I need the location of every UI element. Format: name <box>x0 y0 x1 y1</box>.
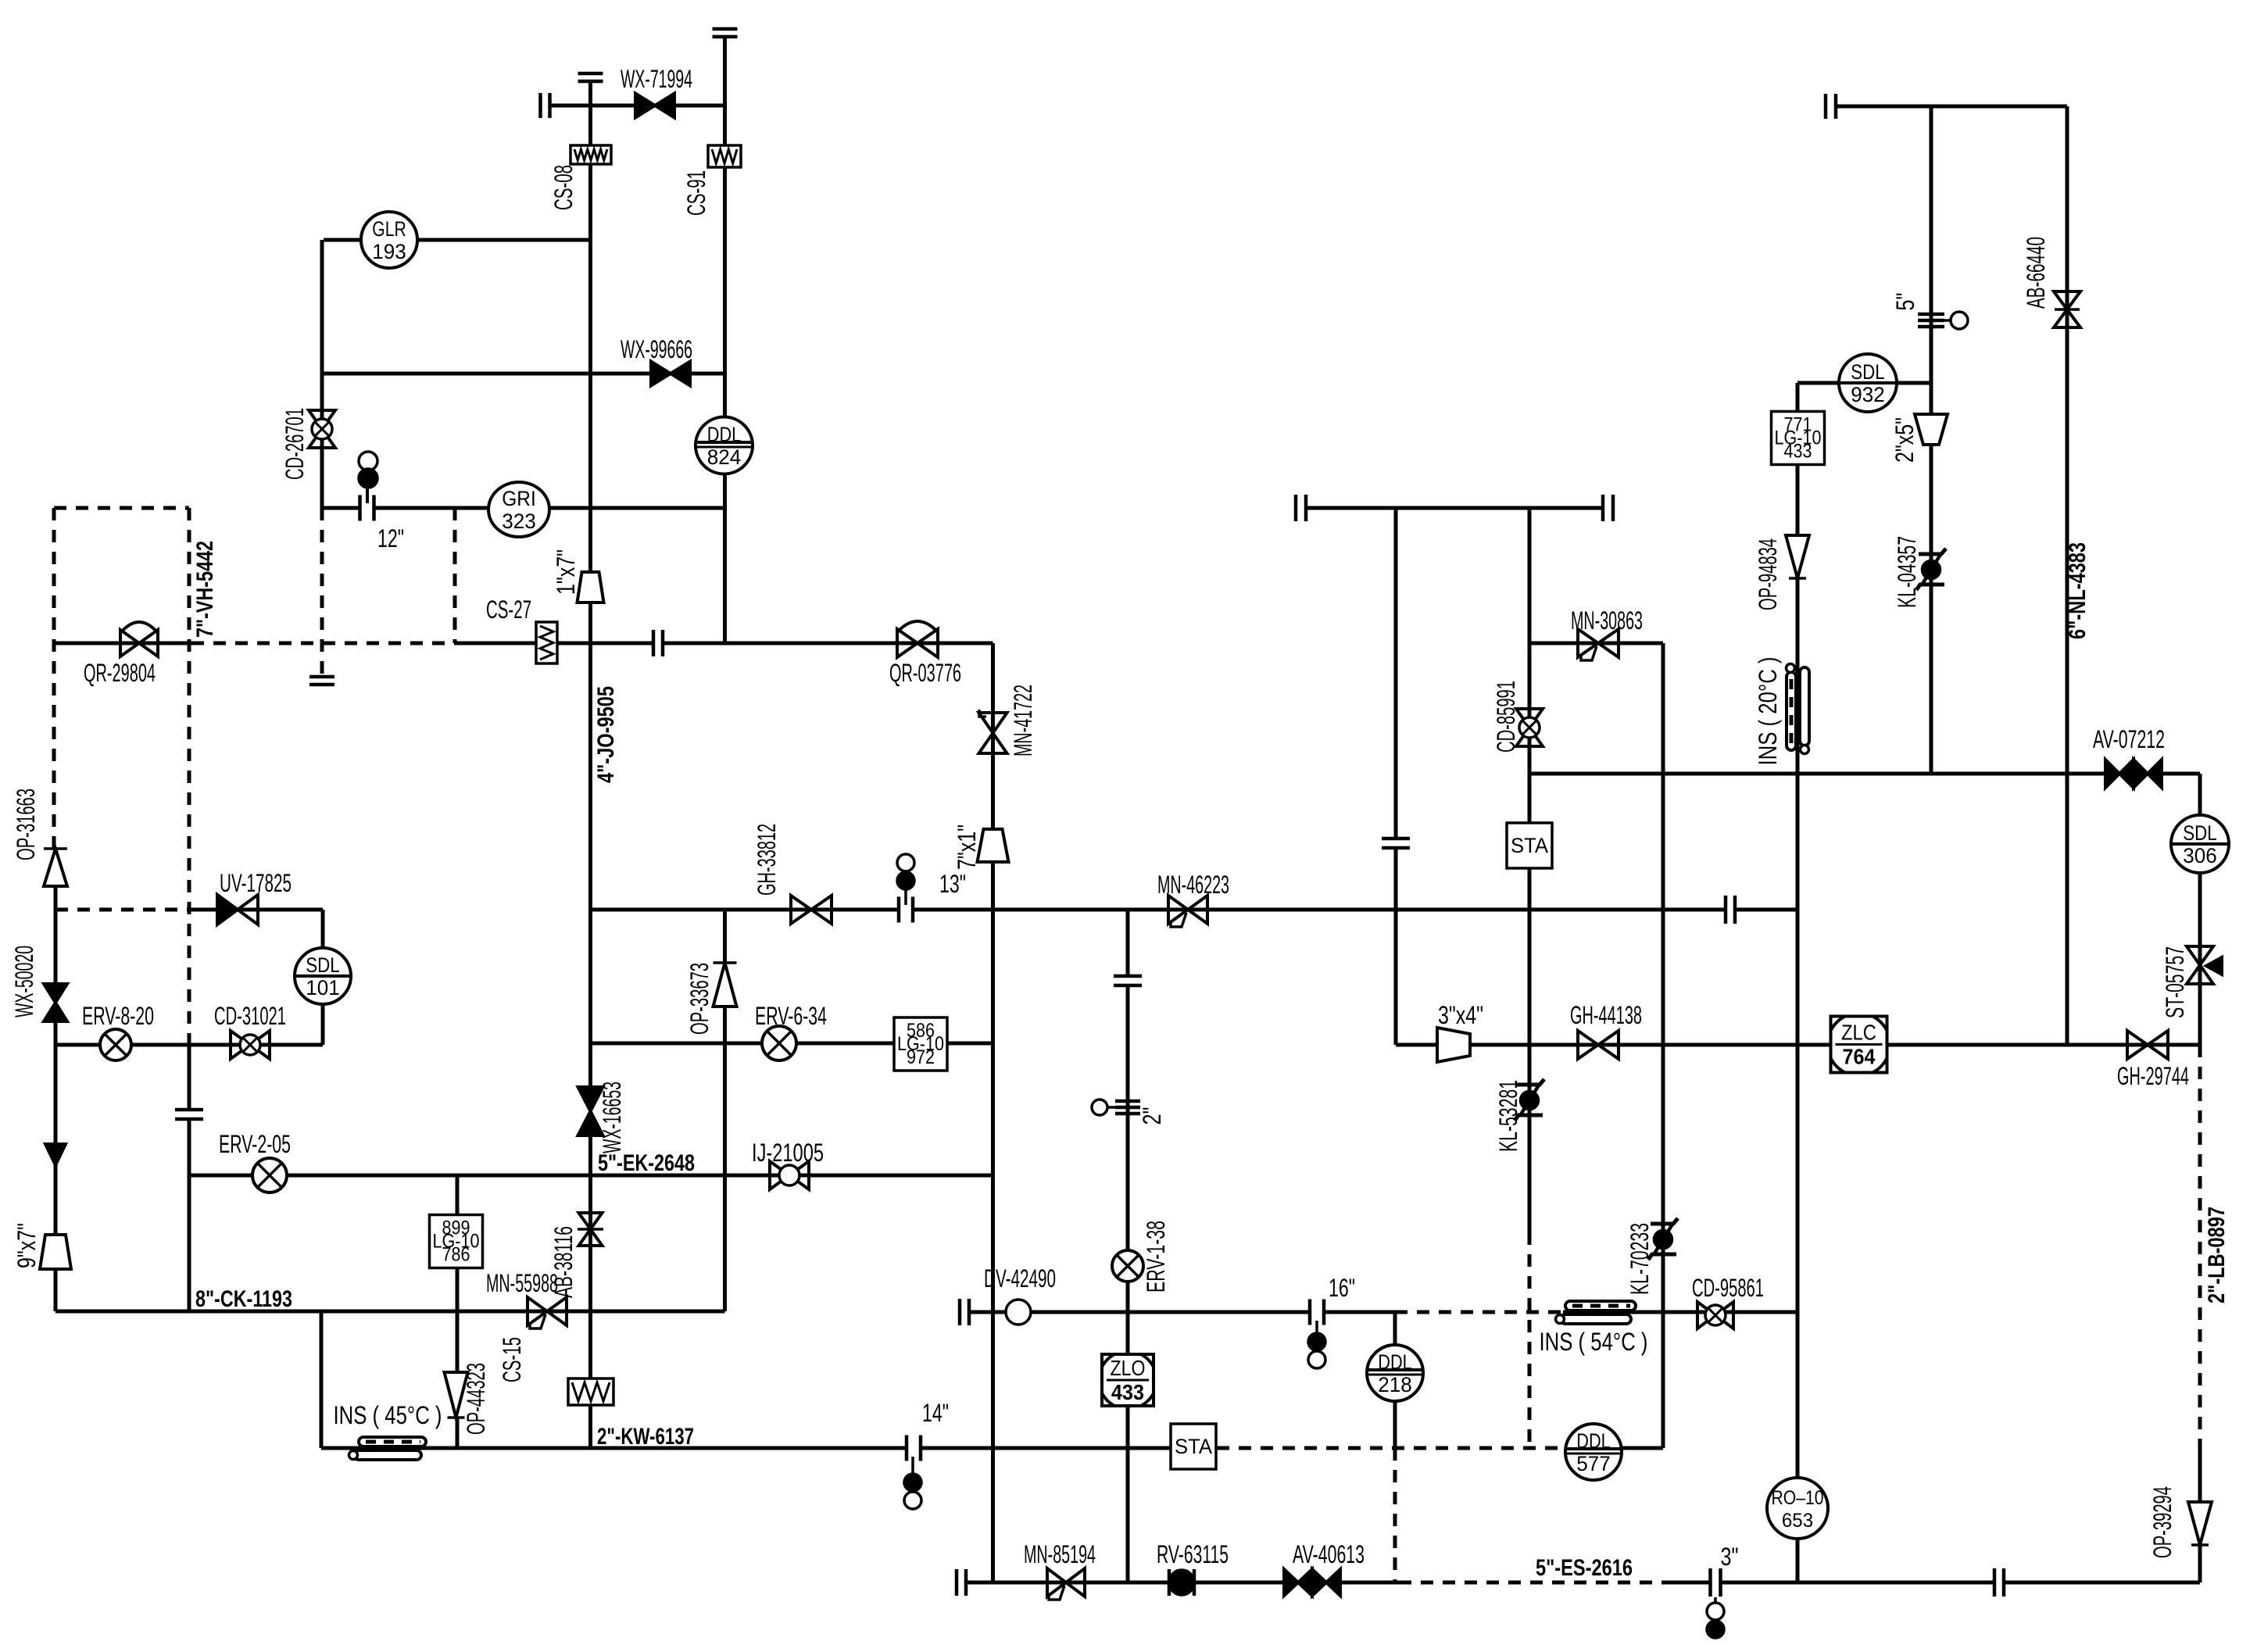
wire main line y=1164 <box>591 908 1798 912</box>
instrument SDL 306 <box>2171 815 2229 873</box>
spectacle blind 5" <box>1918 312 1968 329</box>
wire ERV-1-38 column x=1443 <box>1126 910 1130 1582</box>
valuebox 586 LG-10 972 <box>894 1017 947 1071</box>
svg-text:MN-41722: MN-41722 <box>1009 685 1037 756</box>
svg-text:MN-46223: MN-46223 <box>1157 871 1229 899</box>
wire ERV-8-20 line y=1337 <box>55 1043 323 1047</box>
wire GRI line y=650 <box>322 506 725 510</box>
svg-text:WX-16653: WX-16653 <box>598 1082 626 1153</box>
svg-text:323: 323 <box>502 510 535 533</box>
pipe break 14" on 2KW line <box>907 1436 921 1461</box>
pipe break flange left of WX-71994 line <box>541 93 550 118</box>
wire DDL-218 dashed drop x=1785 <box>1393 1448 1397 1582</box>
wire DV dashed segment y=1679 <box>1395 1311 1563 1314</box>
vent ball open at 12" break <box>359 452 377 470</box>
label WX-16653 <box>598 1082 626 1153</box>
wire ERV-6-34 line y=1335 <box>591 1042 993 1046</box>
pipe break on line y=823 <box>653 630 663 656</box>
svg-text:ERV-1-38: ERV-1-38 <box>1142 1221 1170 1293</box>
wire OP-44323 drop x=585 <box>456 1311 460 1372</box>
wire SDL-306 riser x=2815 <box>2198 774 2202 1045</box>
label CS-27 <box>486 595 531 624</box>
label ERV-6-34 <box>755 1002 827 1030</box>
instrument ZLO 433 <box>1099 1351 1157 1409</box>
vent ball filled at 16" <box>1308 1333 1325 1350</box>
heater CS-08 <box>571 145 611 164</box>
instrument ERV-2-05 <box>252 1158 287 1193</box>
svg-text:INS ( 45°C ): INS ( 45°C ) <box>334 1401 442 1429</box>
instrument SDL 101 <box>295 948 351 1004</box>
svg-text:OP-39294: OP-39294 <box>2148 1486 2177 1558</box>
wire riser x=242 lower <box>188 1045 191 1311</box>
pipe break on main line x=2214 <box>1726 896 1735 924</box>
label 7"-VH-5442 pipe tag <box>192 541 218 638</box>
label 1"x7" <box>552 549 580 595</box>
wire GLR loop line y=307 <box>324 238 591 242</box>
svg-text:RO–10: RO–10 <box>1771 1487 1823 1509</box>
reducer 2"x5" <box>1915 414 1948 445</box>
vent ball open at 3" <box>1707 1603 1724 1620</box>
instrument DDL 218 <box>1367 1345 1423 1401</box>
label AB-38116 <box>549 1226 578 1298</box>
label OP-44323 <box>462 1363 490 1435</box>
wire OP-33673 drop x=927.5 <box>723 910 727 1311</box>
flow arrow down x=71 <box>45 1144 66 1165</box>
insulation INS (54C) <box>1556 1301 1636 1324</box>
wire 4"-JO riser x=755.5 (lower) <box>588 910 592 1448</box>
pipe flange pair x=242 <box>175 1110 203 1119</box>
instrument ERV-1-38 <box>1112 1250 1143 1282</box>
svg-text:IJ-21005: IJ-21005 <box>752 1139 824 1167</box>
wire dashed riser x=582 <box>453 508 457 643</box>
svg-text:2"-LB-0897: 2"-LB-0897 <box>2204 1207 2230 1303</box>
valve RV-63115 <box>1169 1569 1194 1596</box>
label CD-85991 <box>1492 681 1520 753</box>
svg-text:WX-50020: WX-50020 <box>10 946 38 1017</box>
wire AV-07212 line y=990 <box>1529 772 2200 776</box>
label 5"-EK-2648 pipe tag <box>598 1150 695 1176</box>
wire UV-17825 line y=1164 <box>189 908 323 912</box>
pipe break flange right end of header <box>1603 495 1613 521</box>
svg-text:KL-53281: KL-53281 <box>1494 1080 1522 1152</box>
svg-text:218: 218 <box>1378 1373 1411 1396</box>
svg-text:5"-EK-2648: 5"-EK-2648 <box>598 1150 695 1176</box>
wire DV-42490 line y=1679 <box>971 1311 1395 1314</box>
wire SDL-101 to CD line x=413 <box>321 1003 325 1045</box>
svg-text:932: 932 <box>1851 383 1884 406</box>
wire OP-39294 stub x=2815 <box>2198 1451 2202 1502</box>
svg-text:5"-ES-2616: 5"-ES-2616 <box>1536 1555 1633 1581</box>
wire DDL-577 tail y=1853 <box>1620 1446 1663 1450</box>
svg-text:GRI: GRI <box>502 487 535 510</box>
vent ball filled at 13" <box>897 872 914 889</box>
instrument SDL 932 <box>1839 354 1897 412</box>
wire riser x=1270.5 below main <box>991 910 995 1582</box>
heater CS-91 <box>708 145 741 167</box>
wire 771 box stub x=2300 <box>1796 383 1800 412</box>
wire WX-71994 line y=135 <box>550 104 725 108</box>
svg-text:6"-NL-4383: 6"-NL-4383 <box>2065 542 2091 639</box>
label QR-03776 <box>889 659 961 687</box>
pipe break flange left end y=136 <box>1826 94 1836 119</box>
instrument DDL 824 <box>696 417 753 474</box>
wire GH-44138 line y=1337 <box>1396 1043 2200 1047</box>
svg-text:4"-JO-9505: 4"-JO-9505 <box>593 686 619 783</box>
svg-text:14": 14" <box>922 1399 949 1427</box>
valve MN-55988 <box>528 1297 567 1328</box>
label 6"-NL-4383 pipe tag <box>2065 542 2091 639</box>
label 9"x7" <box>13 1223 41 1268</box>
pipe break 12" on GRI line <box>360 495 374 521</box>
pipe break flange left of DV line <box>960 1299 969 1325</box>
svg-text:12": 12" <box>377 524 404 552</box>
svg-text:433: 433 <box>1111 1380 1144 1404</box>
valve ST-05757 <box>2187 946 2222 984</box>
svg-text:433: 433 <box>1784 441 1812 463</box>
label WX-99666 <box>621 335 692 363</box>
svg-text:STA: STA <box>1175 1435 1212 1458</box>
pipe break on bottom line x=2558 <box>1994 1568 2004 1597</box>
wire 899 box stub x=585 <box>456 1175 460 1215</box>
svg-text:CS-15: CS-15 <box>498 1337 526 1382</box>
wire STA dashed line y=1853 <box>1217 1446 1567 1450</box>
wire CS-91 riser x=927.5 <box>723 37 727 643</box>
reducer 9"x7" <box>40 1235 71 1269</box>
pipe break 3" on bottom line <box>1711 1568 1721 1597</box>
valve KL-04357 <box>1916 549 1946 590</box>
label GH-29744 <box>2117 1062 2189 1090</box>
instrument ZLC 764 <box>1828 1014 1890 1076</box>
wire header y=650 <box>1306 506 1603 510</box>
label 5"-ES-2616 pipe tag <box>1536 1555 1633 1581</box>
label CS-15 <box>498 1337 526 1382</box>
label MN-85194 <box>1024 1540 1096 1568</box>
svg-text:CS-08: CS-08 <box>549 165 578 210</box>
svg-text:ERV-6-34: ERV-6-34 <box>755 1002 827 1030</box>
wire QR-03776 line y=823 <box>663 642 993 645</box>
instrument RO-10 653 <box>1767 1478 1828 1539</box>
svg-text:8"-CK-1193: 8"-CK-1193 <box>195 1286 292 1312</box>
svg-text:13": 13" <box>939 870 966 898</box>
end cap bottom of dashed drop x=412 <box>309 677 334 685</box>
label 3" <box>1721 1543 1739 1571</box>
wire riser x=2300 <box>1796 464 1800 1478</box>
wire dashed 2"-LB-0897 x=2815 <box>2198 1045 2202 1451</box>
relief OP-39294 <box>2188 1502 2212 1545</box>
instrument DDL 577 <box>1565 1424 1622 1480</box>
label 5" <box>1891 293 1919 311</box>
wire ERV-2-05 line y=1504 <box>189 1174 993 1178</box>
svg-text:KL-70233: KL-70233 <box>1626 1223 1654 1295</box>
svg-text:577: 577 <box>1576 1452 1610 1475</box>
pipe break flange left of bottom line <box>957 1569 966 1596</box>
wire dashed riser x=242 <box>188 508 191 1045</box>
valuebox 899 LG-10 786 <box>430 1215 483 1268</box>
svg-text:CD-31021: CD-31021 <box>214 1002 286 1030</box>
station STA box upper <box>1507 823 1552 868</box>
valve WX-50020 (closed) <box>44 984 67 1021</box>
wire SDL-932 line y=490 <box>1797 381 1931 385</box>
wire bottom right riser x=2815 <box>2198 1545 2202 1582</box>
vent ball open at 14" <box>904 1492 921 1509</box>
svg-text:OP-94834: OP-94834 <box>1754 538 1782 610</box>
label 2"-LB-0897 pipe tag <box>2204 1207 2230 1303</box>
svg-text:101: 101 <box>306 976 339 999</box>
wire 899 box to CK line x=585 <box>456 1268 460 1311</box>
label INS (20C) <box>1754 657 1782 766</box>
svg-text:WX-99666: WX-99666 <box>621 335 692 363</box>
svg-text:972: 972 <box>907 1046 935 1068</box>
svg-text:MN-85194: MN-85194 <box>1024 1540 1096 1568</box>
svg-text:QR-29804: QR-29804 <box>84 659 156 687</box>
valve WX-16653 (closed) <box>578 1087 603 1135</box>
svg-text:306: 306 <box>2183 844 2216 867</box>
end cap top of CS-08 riser <box>578 73 603 81</box>
vent ball open at 13" <box>897 854 914 871</box>
wire INS54 line y=1679 <box>1563 1311 1797 1314</box>
spectacle blind 2" <box>1092 1100 1140 1115</box>
vent stem 16" <box>1315 1321 1318 1333</box>
svg-text:GLR: GLR <box>372 217 406 241</box>
label AB-66440 <box>2022 237 2050 309</box>
valve IJ-21005 <box>770 1161 809 1189</box>
wire dashed drop below GRI junction x=412 <box>320 508 324 677</box>
wire WX-99666 line y=478 <box>322 372 725 376</box>
label WX-50020 <box>10 946 38 1017</box>
svg-text:CS-91: CS-91 <box>682 170 710 216</box>
label 2"-KW-6137 pipe tag <box>597 1424 694 1450</box>
wire dashed drop x=1957 <box>1528 1232 1532 1448</box>
label UV-17825 <box>220 869 292 897</box>
heater CS-15 <box>568 1378 613 1405</box>
svg-text:ZLC: ZLC <box>1841 1021 1876 1045</box>
instrument GLR 193 <box>361 212 417 268</box>
relief OP-94834 <box>1786 535 1809 578</box>
label 2" <box>1138 1107 1166 1125</box>
label ERV-1-38 <box>1142 1221 1170 1293</box>
svg-text:AV-07212: AV-07212 <box>2093 725 2165 753</box>
valve AB-66440 <box>2054 291 2080 327</box>
svg-text:STA: STA <box>1511 834 1548 857</box>
valve AB-38116 <box>578 1213 603 1246</box>
label INS (45C) <box>334 1401 442 1429</box>
svg-text:16": 16" <box>1329 1274 1355 1302</box>
label AV-07212 <box>2093 725 2165 753</box>
wire bottom line y=2025 dashed (5"-ES-2616) <box>1399 1581 1672 1585</box>
relief OP-33673 <box>714 963 737 1007</box>
svg-text:5": 5" <box>1891 293 1919 311</box>
svg-text:1"x7": 1"x7" <box>552 549 580 595</box>
svg-text:OP-31663: OP-31663 <box>12 788 40 860</box>
wire QR-03776 line y=823 (CS-27 segment) <box>455 642 653 645</box>
svg-text:2"-KW-6137: 2"-KW-6137 <box>597 1424 694 1450</box>
svg-text:DV-42490: DV-42490 <box>984 1264 1056 1293</box>
svg-text:AV-40613: AV-40613 <box>1293 1540 1365 1568</box>
label ERV-2-05 <box>219 1130 291 1158</box>
svg-text:CD-26701: CD-26701 <box>281 408 309 480</box>
label KL-70233 <box>1626 1223 1654 1295</box>
svg-text:QR-03776: QR-03776 <box>889 659 961 687</box>
wire bottom line y=2025 left <box>968 1581 1399 1585</box>
label MN-46223 <box>1157 871 1229 899</box>
valve KL-70233 <box>1648 1218 1678 1260</box>
svg-text:CS-27: CS-27 <box>486 595 531 624</box>
valve WX-99666 <box>651 362 690 386</box>
svg-text:SDL: SDL <box>1851 360 1884 384</box>
svg-text:ERV-8-20: ERV-8-20 <box>82 1002 154 1030</box>
label DV-42490 <box>984 1264 1056 1293</box>
svg-text:MN-55988: MN-55988 <box>486 1269 558 1297</box>
relief OP-31663 <box>44 849 67 886</box>
wire 2"-KW branch drop x=411 <box>320 1311 324 1448</box>
label OP-31663 <box>12 788 40 860</box>
pipe break 16" on DV line <box>1310 1300 1324 1325</box>
svg-text:ZLO: ZLO <box>1111 1356 1146 1380</box>
wire dashed left riser x=69 <box>52 508 56 849</box>
wire 4"-JO-9505 riser x=755.5 (upper) <box>588 643 592 910</box>
label OP-33673 <box>685 963 714 1035</box>
wire bottom line y=2025 right <box>1672 1581 2200 1585</box>
vent stem 13" <box>904 889 907 908</box>
wire 6"-NL-4383 riser x=2645 <box>2066 106 2069 1045</box>
wire QR-29804 line y=823 dashed <box>191 642 455 645</box>
wire riser x=2128 <box>1661 643 1665 1448</box>
station STA box lower <box>1171 1424 1216 1469</box>
wire RO-10 tail x=2300 <box>1796 1539 1800 1583</box>
label 13" <box>939 870 966 898</box>
label OP-39294 <box>2148 1486 2177 1558</box>
label CD-95861 <box>1692 1274 1764 1302</box>
insulation INS (45C) <box>349 1437 427 1460</box>
end cap top of CS-91 riser <box>713 29 738 37</box>
valve QR-29804 <box>120 622 158 656</box>
svg-text:GH-44138: GH-44138 <box>1570 1001 1642 1029</box>
svg-text:AB-38116: AB-38116 <box>549 1226 578 1298</box>
label CS-91 <box>682 170 710 216</box>
label 12" <box>377 524 404 552</box>
label CD-26701 <box>281 408 309 480</box>
instrument ERV-6-34 <box>762 1026 796 1060</box>
svg-text:2"x5": 2"x5" <box>1890 417 1919 463</box>
svg-text:WX-71994: WX-71994 <box>621 65 692 93</box>
svg-text:DDL: DDL <box>1576 1429 1610 1453</box>
valve MN-30863 <box>1578 629 1619 660</box>
vent ball filled at 3" <box>1707 1621 1724 1638</box>
wire top header y=136 <box>1836 105 2067 109</box>
label 8"-CK-1193 pipe tag <box>195 1286 292 1312</box>
pipe break flange left end of header <box>1296 495 1306 521</box>
label IJ-21005 <box>752 1139 824 1167</box>
label 7"x1" <box>953 824 981 870</box>
label MN-55988 <box>486 1269 558 1297</box>
label GH-44138 <box>1570 1001 1642 1029</box>
label RV-63115 <box>1157 1540 1229 1568</box>
label INS (54C) <box>1540 1328 1648 1356</box>
vent ball open at 16" <box>1308 1351 1325 1368</box>
svg-text:RV-63115: RV-63115 <box>1157 1540 1229 1568</box>
vent ball filled at 14" <box>904 1474 921 1491</box>
svg-text:2": 2" <box>1138 1107 1166 1125</box>
svg-text:653: 653 <box>1782 1510 1813 1532</box>
svg-text:INS ( 54°C ): INS ( 54°C ) <box>1540 1328 1648 1356</box>
valve GH-44138 <box>1578 1031 1619 1059</box>
svg-text:DDL: DDL <box>707 423 741 446</box>
vent stem 3" <box>1714 1597 1717 1604</box>
valve GH-29744 <box>2127 1031 2168 1059</box>
label ERV-8-20 <box>82 1002 154 1030</box>
pipe flange pair x=1786 capacitor <box>1382 839 1410 848</box>
valve MN-85194 <box>1047 1568 1085 1600</box>
svg-text:INS ( 20°C ): INS ( 20°C ) <box>1754 657 1782 766</box>
valve AV-40613 (double) <box>1284 1569 1340 1596</box>
svg-text:7"-VH-5442: 7"-VH-5442 <box>192 541 218 638</box>
svg-text:OP-33673: OP-33673 <box>685 963 714 1035</box>
svg-text:7"x1": 7"x1" <box>953 824 981 870</box>
heater CS-27 <box>536 622 557 663</box>
label GH-33812 <box>753 824 781 896</box>
reducer 7"x1" <box>978 829 1009 862</box>
svg-text:193: 193 <box>372 240 406 263</box>
svg-text:GH-33812: GH-33812 <box>753 824 781 896</box>
valve UV-17825 <box>217 895 258 924</box>
label 2"x5" <box>1890 417 1919 463</box>
svg-text:ERV-2-05: ERV-2-05 <box>219 1130 291 1158</box>
instrument DV-42490 <box>1006 1300 1031 1325</box>
svg-text:3"x4": 3"x4" <box>1438 1001 1483 1029</box>
svg-text:MN-30863: MN-30863 <box>1571 606 1643 635</box>
svg-text:ST-05757: ST-05757 <box>2161 946 2189 1018</box>
label 3"x4" <box>1438 1001 1483 1029</box>
wire dashed rect top y=650 <box>54 506 189 510</box>
vent stem at 12" break <box>366 488 369 508</box>
wire GLR loop left riser x=412 <box>320 240 324 508</box>
valuebox 771 LG-10 433 <box>1772 412 1825 465</box>
svg-text:9"x7": 9"x7" <box>13 1223 41 1268</box>
instrument ERV-8-20 <box>100 1029 131 1060</box>
wire CS-08 riser x=755.5 <box>588 81 592 643</box>
label MN-30863 <box>1571 606 1643 635</box>
vent ball filled at 12" break <box>359 469 377 488</box>
wire left column x=71 upper <box>54 886 58 1235</box>
valve MN-46223 <box>1168 896 1207 927</box>
label AV-40613 <box>1293 1540 1365 1568</box>
label ST-05757 <box>2161 946 2189 1018</box>
pipe break 13" on main line <box>899 897 913 923</box>
label 4"-JO-9505 pipe tag <box>593 686 619 783</box>
valve CD-85991 <box>1516 709 1543 746</box>
valve MN-41722 <box>979 710 1007 753</box>
svg-text:SDL: SDL <box>2183 821 2216 845</box>
svg-text:CD-85991: CD-85991 <box>1492 681 1520 753</box>
svg-text:3": 3" <box>1721 1543 1739 1571</box>
label MN-41722 <box>1009 685 1037 756</box>
svg-text:824: 824 <box>707 445 741 469</box>
label CS-08 <box>549 165 578 210</box>
label CD-31021 <box>214 1002 286 1030</box>
label 16" <box>1329 1274 1355 1302</box>
wire 5" riser x=2471 <box>1930 106 1933 774</box>
valve QR-03776 <box>897 621 938 657</box>
pipe flange pair x=1443 capacitor <box>1114 976 1142 985</box>
valve AV-07212 (double) <box>2105 760 2162 788</box>
svg-text:DDL: DDL <box>1378 1350 1411 1374</box>
svg-text:GH-29744: GH-29744 <box>2117 1062 2189 1090</box>
valve GH-33812 <box>791 896 832 924</box>
wire header drop x=1957 <box>1528 508 1532 1232</box>
wire left column x=71 lower <box>54 1269 58 1311</box>
label WX-71994 <box>621 65 692 93</box>
wire DDL-218 drop x=1785 <box>1393 1312 1397 1448</box>
